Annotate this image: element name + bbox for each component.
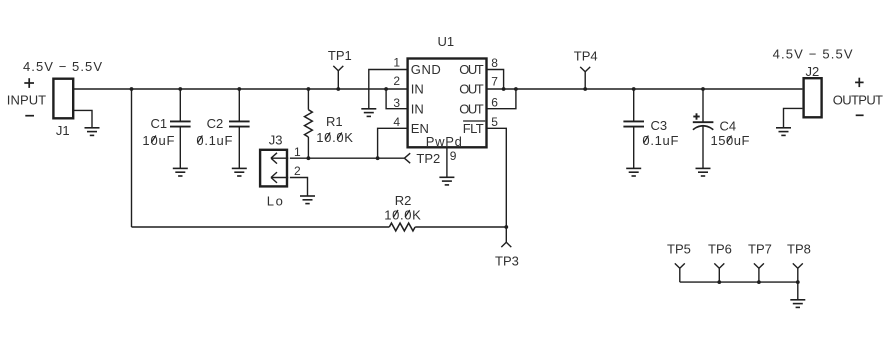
connector J2 [804, 64, 822, 117]
svg-text:J3: J3 [269, 132, 283, 147]
wire J1 lower to ground [74, 110, 92, 128]
wire U1 pin1 to ground [369, 70, 408, 110]
junction dot EN [376, 156, 380, 160]
junction dot TP1 [336, 87, 340, 91]
test point TP4 [574, 49, 598, 89]
svg-text:U1: U1 [438, 34, 455, 49]
svg-text:TP7: TP7 [748, 242, 772, 257]
junction dot pin8 [502, 87, 506, 91]
connector J3 [260, 132, 288, 186]
ground J3 pin2 [300, 196, 315, 204]
svg-text:TP2: TP2 [416, 151, 440, 166]
label minus J1 [25, 115, 34, 117]
label plus C4 [693, 113, 699, 119]
svg-text:C4: C4 [720, 119, 737, 134]
wire test point bus [680, 281, 798, 283]
svg-text:1: 1 [393, 56, 400, 70]
capacitor C3 [623, 89, 667, 168]
connector J1 [53, 79, 73, 138]
svg-text:IN: IN [411, 101, 424, 116]
svg-text:R1: R1 [326, 114, 343, 129]
svg-text:TP4: TP4 [574, 49, 598, 64]
svg-text:J1: J1 [56, 123, 70, 138]
wire U1 pin6 to output rail [487, 89, 516, 109]
value C1 10uF [142, 133, 174, 148]
svg-text:IN: IN [411, 82, 424, 97]
svg-text:6: 6 [491, 95, 498, 109]
junction dot FLT bottom [504, 225, 508, 229]
value C2 0.1uF [196, 133, 232, 148]
svg-text:C2: C2 [207, 116, 224, 131]
svg-text:0.1uF: 0.1uF [196, 133, 232, 148]
svg-text:5: 5 [491, 115, 498, 129]
svg-text:10.0K: 10.0K [384, 207, 421, 222]
junction dot pin3 [384, 87, 388, 91]
value R1 10.0K [316, 130, 353, 145]
node input rail [132, 88, 408, 90]
svg-text:2: 2 [393, 74, 400, 88]
resistor R1 [305, 89, 343, 158]
junction dot pin6 [514, 87, 518, 91]
svg-text:1: 1 [294, 145, 301, 159]
junction dot R1 bottom [307, 156, 311, 160]
svg-text:INPUT: INPUT [7, 93, 46, 108]
ground TP8 [790, 300, 805, 308]
value C4 150uF [711, 133, 750, 148]
svg-text:TP8: TP8 [787, 242, 811, 257]
node output rail [487, 88, 803, 90]
svg-text:9: 9 [450, 149, 457, 163]
wire U1 pin3 to rail [386, 89, 408, 109]
svg-text:0.1uF: 0.1uF [642, 133, 678, 148]
svg-text:4: 4 [393, 115, 400, 129]
svg-text:OUTPUT: OUTPUT [833, 92, 883, 107]
test point TP3 [495, 227, 519, 269]
wire U1 pin4 EN drop [378, 128, 408, 158]
svg-text:2: 2 [294, 164, 301, 178]
label plus J1 [24, 78, 34, 88]
resistor R2 [389, 193, 415, 231]
svg-text:OUT: OUT [459, 101, 484, 116]
test point TP6 [708, 242, 732, 283]
svg-text:OUT: OUT [459, 62, 484, 77]
label minus J2 [856, 114, 864, 116]
capacitor C2 [207, 89, 250, 168]
ground C3 [626, 168, 641, 176]
junction dot C2 [237, 87, 241, 91]
svg-text:3: 3 [393, 96, 400, 110]
ground C4 [696, 168, 711, 176]
ground J2 [776, 128, 791, 136]
wire U1 pin9 to ground [446, 148, 448, 178]
wire J2 lower to ground [784, 108, 803, 128]
junction dot R1 top [307, 87, 311, 91]
svg-text:4.5V − 5.5V: 4.5V − 5.5V [773, 47, 853, 62]
test point TP8 [787, 242, 811, 283]
svg-text:GND: GND [411, 62, 441, 77]
svg-text:C1: C1 [151, 116, 168, 131]
wire left vertical feedback [131, 89, 133, 227]
svg-text:10.0K: 10.0K [316, 130, 353, 145]
svg-text:TP5: TP5 [667, 242, 691, 257]
svg-text:Lo: Lo [267, 194, 283, 209]
svg-text:8: 8 [491, 56, 498, 70]
ground J1 [85, 128, 100, 136]
value R2 10.0K [384, 207, 421, 222]
capacitor C4 polarized [693, 89, 736, 168]
svg-text:TP1: TP1 [328, 48, 352, 63]
ground C1 [173, 168, 188, 176]
svg-text:10uF: 10uF [142, 133, 174, 148]
svg-text:FLT: FLT [463, 121, 484, 136]
wire J1 to input rail [74, 88, 132, 90]
svg-text:R2: R2 [395, 193, 412, 208]
junction dot C3 [632, 87, 636, 91]
capacitor C1 [151, 89, 191, 168]
wire J3 pin2 to ground [290, 178, 308, 197]
svg-text:4.5V − 5.5V: 4.5V − 5.5V [23, 59, 102, 74]
junction dot TP4 [583, 87, 587, 91]
test point TP5 [667, 242, 691, 283]
wire U1 pin5 FLT drop [487, 128, 507, 227]
wire U1 pin8 to output rail [487, 70, 504, 90]
svg-text:OUT: OUT [459, 82, 484, 97]
svg-text:150uF: 150uF [711, 133, 750, 148]
test point TP1 [328, 48, 352, 89]
svg-text:TP3: TP3 [495, 254, 519, 269]
wire J3 pin1 row to TP2 [290, 157, 405, 159]
svg-text:PwPd: PwPd [426, 134, 462, 149]
junction dot J1 feedback tap [130, 87, 134, 91]
test point TP2 [404, 151, 440, 166]
junction dot TP8 [796, 280, 800, 284]
svg-text:C3: C3 [651, 118, 668, 133]
svg-text:TP6: TP6 [708, 242, 732, 257]
junction dot TP6 [717, 280, 721, 284]
junction dot C4 [701, 87, 705, 91]
svg-text:7: 7 [491, 75, 498, 89]
wire TP8 to ground [797, 282, 799, 300]
junction dot TP7 [757, 280, 761, 284]
wire bottom rail left [132, 226, 390, 228]
ground U1 pin9 [439, 177, 454, 185]
label plus J2 [855, 78, 864, 87]
value C3 0.1uF [642, 133, 678, 148]
IC U1 [408, 34, 487, 149]
svg-text:J2: J2 [806, 64, 820, 79]
junction dot C1 [178, 87, 182, 91]
test point TP7 [748, 242, 772, 283]
ground U1 pin1 [361, 109, 376, 117]
wire bottom rail right [415, 226, 506, 228]
ground C2 [232, 168, 247, 176]
